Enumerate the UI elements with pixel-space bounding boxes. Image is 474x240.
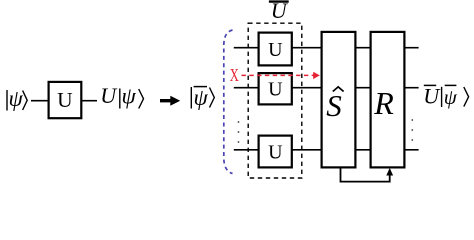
feedback arrowhead into R (386, 168, 393, 176)
gate box U (left) (49, 82, 82, 118)
wire row1 left stub (234, 47, 259, 49)
label U-bar above dashed box (269, 0, 289, 23)
ket |psi> input label (7, 86, 27, 111)
svg-text:U: U (423, 84, 441, 109)
svg-text:U: U (100, 83, 118, 108)
svg-text:ψ: ψ (9, 86, 24, 111)
wire into U gate (31, 100, 50, 102)
wire row2 between S and R (355, 87, 372, 89)
svg-text:U: U (268, 141, 283, 163)
svg-text:U: U (271, 0, 289, 23)
svg-text:ψ: ψ (194, 85, 209, 110)
blue dashed grouping brace (224, 30, 233, 174)
dashed box around U column (248, 23, 302, 178)
wire row1 between U and S (291, 47, 322, 49)
wire row1 between S and R (355, 47, 372, 49)
wire row3 between U and S (291, 149, 322, 151)
classical feedback wire from S to R (341, 167, 390, 182)
svg-text:U: U (268, 79, 283, 101)
wire out of U gate (81, 100, 97, 102)
wire row1 output stub (404, 47, 419, 49)
output label U-bar |psi-bar> (423, 84, 468, 109)
wire row3 output stub (404, 149, 419, 151)
svg-text:X: X (230, 66, 239, 86)
hat accent of S (333, 87, 344, 92)
svg-text:U: U (268, 39, 283, 61)
gate box R (recovery) (371, 32, 405, 168)
svg-text:ψ: ψ (122, 84, 137, 109)
gate box U row3 (259, 136, 292, 168)
vertical ellipsis (right) (411, 119, 413, 141)
bold mapping arrow (160, 96, 180, 106)
ket |psi-bar> label (191, 85, 214, 110)
vertical ellipsis (left) (238, 121, 240, 143)
gate box U row2 (259, 73, 292, 104)
gate box S-hat (syndrome) (322, 32, 356, 168)
red dashed error-propagation arrow (242, 72, 320, 79)
label U|psi> (100, 83, 143, 108)
wire row2 output stub (404, 87, 419, 89)
wire row3 left stub (234, 149, 259, 151)
svg-text:S: S (326, 88, 342, 123)
gate box U row1 (259, 33, 292, 66)
wire row2 left stub (234, 87, 259, 89)
svg-text:U: U (57, 88, 73, 112)
svg-text:ψ: ψ (444, 85, 458, 109)
svg-text:R: R (373, 85, 394, 121)
wire row3 between S and R (355, 149, 372, 151)
wire row2 between U and S (291, 87, 322, 89)
